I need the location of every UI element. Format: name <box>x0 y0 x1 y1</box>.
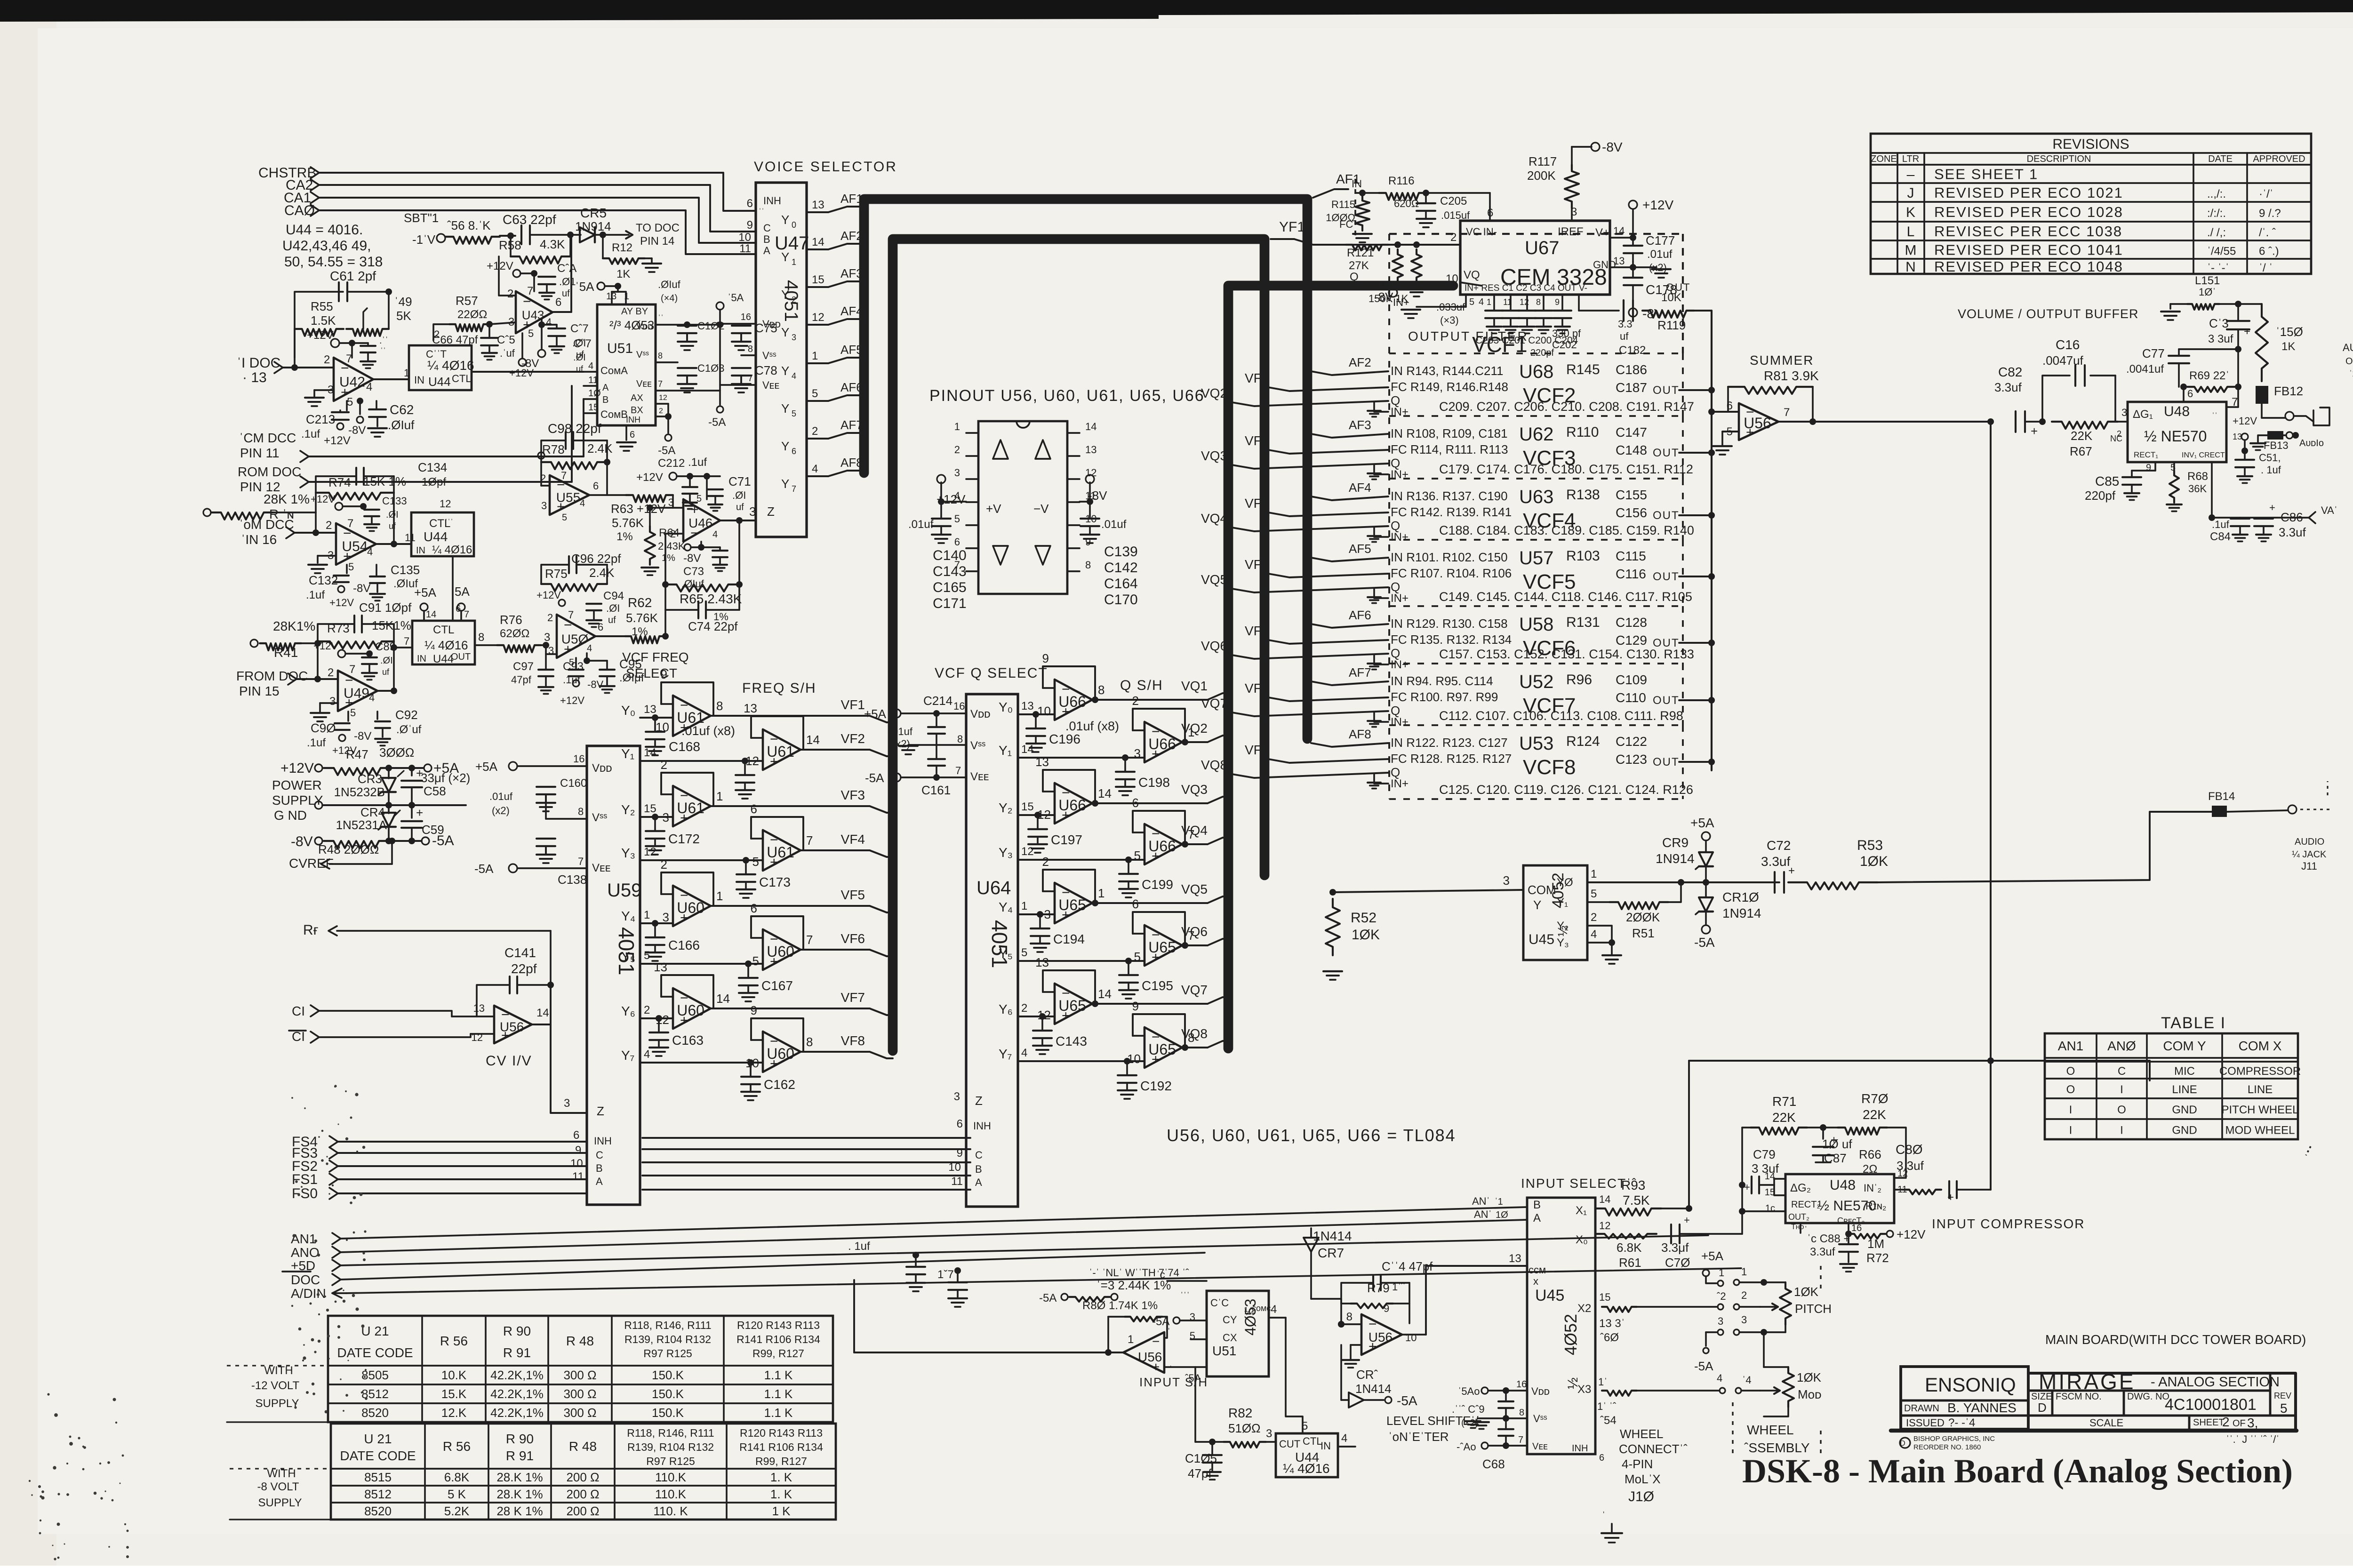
svg-text:AF2: AF2 <box>840 229 863 243</box>
svg-text:GND: GND <box>2172 1124 2197 1137</box>
svg-text:C205: C205 <box>1440 195 1467 208</box>
svg-text:I: I <box>2069 1124 2073 1137</box>
svg-text:R139, R104 R132: R139, R104 R132 <box>627 1441 714 1453</box>
svg-text:1ˈ ˈˆ: 1ˈ ˈˆ <box>1597 1400 1617 1412</box>
svg-text:AᴜᴅIᴏ: AᴜᴅIᴏ <box>2299 438 2324 448</box>
switch U51 section CY CX 4053 <box>1152 1269 1303 1433</box>
svg-text:13: 13 <box>812 199 824 211</box>
svg-text:+12V: +12V <box>324 434 351 447</box>
svg-text:R81 3.9K: R81 3.9K <box>1764 368 1819 383</box>
svg-text:U66: U66 <box>1058 797 1086 814</box>
svg-text:8512: 8512 <box>364 1487 392 1501</box>
svg-text:VF3: VF3 <box>1245 433 1269 448</box>
svg-text:IN+: IN+ <box>1391 658 1409 671</box>
svg-text:C199: C199 <box>1142 877 1173 892</box>
svg-text:R97 R125: R97 R125 <box>643 1347 692 1360</box>
svg-text:U65: U65 <box>1148 939 1176 956</box>
filter block U52 VCF7 <box>1201 664 1715 728</box>
svg-text:CᴏᴍB: CᴏᴍB <box>600 408 628 420</box>
U42 power pins C213 C62 <box>301 329 415 447</box>
svg-text:ˈ1: ˈ1 <box>1495 1197 1503 1207</box>
svg-text:R141 R106 R134: R141 R106 R134 <box>739 1441 823 1453</box>
svg-text:.01uf: .01uf <box>1101 518 1127 531</box>
svg-text:AY BY: AY BY <box>621 306 648 317</box>
svg-text:INH: INH <box>626 415 640 424</box>
svg-text:16: 16 <box>1851 1223 1862 1233</box>
svg-text:-8V: -8V <box>683 552 701 565</box>
svg-text:Vˢˢ: Vˢˢ <box>762 350 776 361</box>
svg-text:CI: CI <box>292 1004 305 1018</box>
svg-text:200 Ω: 200 Ω <box>566 1470 599 1484</box>
svg-text:U49: U49 <box>344 686 369 701</box>
svg-text:SUPPLY: SUPPLY <box>256 1397 299 1410</box>
svg-text:ˈI DOC: ˈI DOC <box>237 355 280 371</box>
svg-text:U61: U61 <box>677 800 704 816</box>
svg-text:IN+: IN+ <box>1391 716 1409 728</box>
U67 IN+ pin5 ground <box>1393 295 1484 318</box>
svg-text:9: 9 <box>747 219 753 232</box>
svg-text:8: 8 <box>1085 559 1091 571</box>
svg-text:U57: U57 <box>1519 548 1553 568</box>
svg-text:U53: U53 <box>1519 733 1553 754</box>
svg-text:10: 10 <box>1446 272 1458 285</box>
svg-text:12.K: 12.K <box>441 1406 467 1420</box>
svg-text:R48 2ØØΩ: R48 2ØØΩ <box>318 842 379 856</box>
svg-text:150.K: 150.K <box>652 1368 684 1382</box>
svg-text:VF2: VF2 <box>1245 371 1269 385</box>
svg-text:9: 9 <box>1555 297 1560 307</box>
ROM DOC pin 11 and pin 12 input lines <box>238 386 584 494</box>
svg-text:VQ5: VQ5 <box>1181 882 1208 896</box>
svg-text:14: 14 <box>1613 225 1625 237</box>
svg-text:13: 13 <box>654 960 667 974</box>
svg-text:CTL: CTL <box>1303 1435 1322 1447</box>
svg-text:.01uf: .01uf <box>908 518 934 531</box>
svg-text:VQ6: VQ6 <box>1201 639 1227 653</box>
svg-text:5: 5 <box>752 954 759 968</box>
svg-text:12: 12 <box>1021 845 1034 858</box>
svg-text:C71: C71 <box>728 474 751 488</box>
svg-text:U60: U60 <box>767 1045 794 1062</box>
svg-text:C96 22pf: C96 22pf <box>571 552 621 566</box>
svg-text:VF5: VF5 <box>841 888 865 902</box>
svg-text:+12V: +12V <box>313 640 338 652</box>
svg-text:16: 16 <box>1516 1379 1527 1390</box>
svg-text:3: 3 <box>2121 407 2127 418</box>
svg-text:uf: uf <box>1620 330 1629 342</box>
svg-text:C78: C78 <box>755 363 777 377</box>
svg-text:FC R128. R125. R127: FC R128. R125. R127 <box>1391 752 1512 766</box>
svg-text:.033uf: .033uf <box>1436 301 1465 313</box>
svg-text:14: 14 <box>644 746 656 759</box>
svg-text:AX: AX <box>631 393 643 403</box>
svg-text:200K: 200K <box>1527 168 1556 183</box>
svg-text:R75: R75 <box>545 567 568 581</box>
svg-text:15: 15 <box>644 802 656 815</box>
svg-text:2: 2 <box>547 612 553 624</box>
U67 V+ pin14 to +12V with C177 <box>1610 198 1675 273</box>
svg-text:U62: U62 <box>1519 424 1553 445</box>
svg-text:FB14: FB14 <box>2208 790 2235 803</box>
svg-text:6: 6 <box>747 197 753 210</box>
svg-text:C141: C141 <box>504 945 536 960</box>
svg-text:¼ 4Ø16: ¼ 4Ø16 <box>432 544 472 556</box>
svg-text:6 ˆ.): 6 ˆ.) <box>2259 245 2279 258</box>
svg-text:AF3: AF3 <box>840 266 863 280</box>
svg-text:6: 6 <box>593 480 599 492</box>
input lines CHSTRB CA2 CA1 CA0 <box>258 165 756 255</box>
svg-text:R131: R131 <box>1566 615 1600 630</box>
svg-text:ᴄᴏᴍᴄ: ᴄᴏᴍᴄ <box>1252 1304 1271 1313</box>
svg-text:Y: Y <box>781 477 789 491</box>
svg-text:2: 2 <box>1021 1002 1027 1015</box>
svg-text:0: 0 <box>792 220 796 230</box>
input sample hold op-amp U56 <box>854 1280 1208 1389</box>
svg-text:8: 8 <box>806 1035 813 1049</box>
AN1 AN0 entry to input selector <box>1472 1195 1508 1220</box>
svg-text:1N414: 1N414 <box>1355 1382 1392 1396</box>
VCF Q SELECT label <box>935 665 1048 681</box>
op-amp U50 stage R75 C96 C94 <box>511 552 644 706</box>
multiplexer U64 4051 <box>948 694 1018 1207</box>
svg-text:Z: Z <box>597 1104 604 1118</box>
U59 power pins +5A -5A C160 C138 <box>474 753 587 887</box>
svg-text:Vᴇᴇ: Vᴇᴇ <box>1532 1441 1548 1452</box>
svg-text:C148: C148 <box>1616 443 1647 457</box>
svg-text:Y₇: Y₇ <box>999 1047 1012 1061</box>
svg-text:ˆ54: ˆ54 <box>1600 1414 1617 1427</box>
svg-text:1: 1 <box>1128 1333 1134 1346</box>
svg-text:. 1uf: . 1uf <box>848 1240 870 1253</box>
svg-text:5: 5 <box>562 512 567 523</box>
level shifter op-amp U56 <box>1311 1252 1527 1368</box>
svg-text:2: 2 <box>1042 855 1049 869</box>
svg-text:2.4K: 2.4K <box>589 566 615 580</box>
svg-text:MᴏLˈX: MᴏLˈX <box>1625 1472 1661 1486</box>
svg-text:CR1Ø: CR1Ø <box>1722 890 1759 904</box>
svg-text:J: J <box>1907 185 1914 201</box>
svg-text:U65: U65 <box>1058 896 1086 913</box>
svg-text:O: O <box>2117 1104 2126 1116</box>
multiplexer U45 half 4052 (Y section) <box>1523 865 1597 960</box>
svg-text:VOLUME / OUTPUT BUFFER: VOLUME / OUTPUT BUFFER <box>1958 307 2139 321</box>
coupling cap C82 and C16 bypass loop with R67 <box>1994 337 2128 458</box>
svg-text:1: 1 <box>644 909 650 921</box>
svg-text:AF7: AF7 <box>840 418 863 432</box>
svg-text:X₁: X₁ <box>1576 1204 1587 1217</box>
svg-text:C110: C110 <box>1616 690 1646 705</box>
svg-text:3: 3 <box>1266 1427 1272 1440</box>
svg-text:LINE: LINE <box>2172 1083 2197 1096</box>
svg-text:7: 7 <box>464 609 469 620</box>
svg-text:U 21: U 21 <box>364 1432 392 1446</box>
svg-text:U56: U56 <box>1369 1330 1393 1344</box>
svg-text:-5A: -5A <box>1152 1315 1169 1328</box>
svg-text:5: 5 <box>1021 946 1027 959</box>
svg-text:CR3: CR3 <box>358 772 382 786</box>
svg-text:5: 5 <box>812 387 818 400</box>
svg-text:VQ8: VQ8 <box>1201 758 1227 772</box>
svg-text:22pf: 22pf <box>511 961 537 976</box>
svg-text:U56, U60, U61, U65, U66 = TL08: U56, U60, U61, U65, U66 = TL084 <box>1167 1126 1456 1145</box>
VCF column bottom dashed edge <box>1389 234 1683 799</box>
svg-text:-5A: -5A <box>1397 1393 1417 1408</box>
svg-text:1ØK: 1ØK <box>1797 1370 1822 1384</box>
svg-text:ˈ: ˈ <box>1804 1225 1808 1235</box>
component value table (-12 volt supply) <box>227 1316 833 1422</box>
svg-text:13 3ˈ: 13 3ˈ <box>1599 1317 1625 1330</box>
svg-text:C133: C133 <box>382 495 407 507</box>
svg-text:1Øˈ: 1Øˈ <box>2199 286 2216 298</box>
svg-text:VQ4: VQ4 <box>1181 823 1208 838</box>
svg-text:1. K: 1. K <box>770 1470 792 1484</box>
svg-text:./ /,:: ./ /,: <box>2207 226 2226 239</box>
svg-text:1: 1 <box>1719 1267 1724 1279</box>
svg-text:ˈˈ.ˈ J ˈˈ ˈˆ ˈ/ˈ: ˈˈ.ˈ J ˈˈ ˈˆ ˈ/ˈ <box>2226 1433 2280 1445</box>
svg-text:TABLE I: TABLE I <box>2161 1014 2226 1032</box>
svg-text:+12V: +12V <box>636 471 663 484</box>
svg-text:C177: C177 <box>1646 233 1675 248</box>
svg-text:R67: R67 <box>2070 444 2092 458</box>
svg-text:−: − <box>1152 1334 1160 1349</box>
svg-text:2Ω: 2Ω <box>1863 1163 1877 1176</box>
filter IC U67 CEM3328 <box>1460 221 1616 295</box>
svg-text:5: 5 <box>644 949 650 962</box>
svg-text:-8V: -8V <box>521 357 539 370</box>
svg-text:CUT: CUT <box>1279 1438 1300 1450</box>
svg-text:12: 12 <box>1520 297 1529 307</box>
svg-text:C157. C153. C152. C131. C154.: C157. C153. C152. C131. C154. C130. R133 <box>1439 647 1694 661</box>
svg-text:IN R143, R144.C211: IN R143, R144.C211 <box>1391 364 1503 378</box>
svg-text:R7Ø: R7Ø <box>1861 1091 1889 1106</box>
LEVEL SHIFTER CONVERTER label <box>1386 1414 1479 1444</box>
svg-text:VQ4: VQ4 <box>1201 511 1227 526</box>
svg-text:Y₂: Y₂ <box>621 802 635 817</box>
svg-text:1: 1 <box>792 257 796 267</box>
svg-text:Y: Y <box>781 364 789 378</box>
svg-text:Y₁: Y₁ <box>999 743 1012 758</box>
svg-text:2: 2 <box>328 666 334 679</box>
input compander U48 half NE570 <box>1765 1168 1908 1231</box>
svg-text:150.K: 150.K <box>652 1406 684 1420</box>
svg-text:-5A: -5A <box>1039 1292 1056 1304</box>
Q S/H op-amp array U66/U65 <box>1120 678 1163 693</box>
svg-text:5: 5 <box>752 855 759 869</box>
INPUT SELECTOR label <box>1521 1176 1637 1191</box>
resistor R82 510 and C105 47pf <box>1185 1367 1276 1480</box>
svg-text:3: 3 <box>544 631 550 644</box>
svg-text:FC R114, R111. R113: FC R114, R111. R113 <box>1391 442 1508 456</box>
svg-text:.ØIμf: .ØIμf <box>619 672 644 684</box>
svg-text:Y: Y <box>781 213 789 227</box>
svg-text:INPUT COMPRESSOR: INPUT COMPRESSOR <box>1932 1216 2085 1231</box>
svg-text:U58: U58 <box>1519 614 1553 635</box>
svg-text:6: 6 <box>1132 796 1139 810</box>
svg-text:ΔG₂: ΔG₂ <box>1790 1182 1811 1194</box>
svg-text:+: + <box>1684 1214 1690 1226</box>
svg-text:.ØIuf: .ØIuf <box>658 279 681 290</box>
ground symbol lower left of title <box>1601 1510 1622 1543</box>
svg-text:R47: R47 <box>346 747 368 761</box>
svg-text:1ØK: 1ØK <box>1352 927 1380 943</box>
wheel connector labels <box>1619 1266 1821 1504</box>
svg-text:10: 10 <box>948 1161 961 1174</box>
svg-text:FC R142. R139. R141: FC R142. R139. R141 <box>1391 505 1512 519</box>
svg-text:O: O <box>2066 1083 2075 1096</box>
svg-text:C186: C186 <box>1616 362 1647 377</box>
svg-text:4Ø52: 4Ø52 <box>1561 1314 1580 1355</box>
svg-text:3.3uf: 3.3uf <box>1810 1246 1835 1258</box>
svg-text:Y₄: Y₄ <box>999 900 1013 914</box>
svg-text:1ˈ: 1ˈ <box>1598 1376 1608 1388</box>
svg-text:VQ3: VQ3 <box>1181 782 1208 797</box>
svg-text:U52: U52 <box>1519 672 1553 692</box>
svg-text:PIN 14: PIN 14 <box>640 235 674 248</box>
svg-text:ˆ5A: ˆ5A <box>1185 1372 1201 1384</box>
op-amp U65 (VQ6 Q sample/hold) <box>1132 897 1228 966</box>
svg-text:VF6: VF6 <box>1245 624 1269 638</box>
svg-text:C197: C197 <box>1051 832 1082 847</box>
svg-text:C163: C163 <box>672 1033 704 1048</box>
svg-text:14: 14 <box>1085 421 1096 432</box>
svg-text:/ˈ. ˆ: /ˈ. ˆ <box>2259 226 2276 239</box>
svg-text:R69 22ˈ: R69 22ˈ <box>2189 369 2229 382</box>
svg-text:6: 6 <box>573 1129 579 1142</box>
svg-text:U61: U61 <box>767 743 794 760</box>
svg-text:47pf: 47pf <box>511 674 532 686</box>
svg-text:IN R108, R109, C181: IN R108, R109, C181 <box>1391 426 1508 440</box>
svg-text:.ˈˈˆ Cˆ9: .ˈˈˆ Cˆ9 <box>1452 1403 1485 1415</box>
svg-text:C98 22pf: C98 22pf <box>548 421 601 436</box>
svg-text:CTL: CTL <box>452 373 472 384</box>
svg-text:U66: U66 <box>1058 693 1086 710</box>
svg-text:.01uf: .01uf <box>489 791 513 802</box>
svg-text:Y₀: Y₀ <box>999 700 1013 714</box>
svg-text:U51: U51 <box>1212 1344 1236 1358</box>
svg-text:DATE CODE: DATE CODE <box>337 1345 413 1360</box>
svg-text:1. K: 1. K <box>770 1487 792 1501</box>
svg-text:Y₃: Y₃ <box>621 846 635 860</box>
svg-text:7: 7 <box>578 856 584 867</box>
C88 R72 +12V network <box>1801 1223 1926 1272</box>
op-amp U61 (VF1 freq sample/hold) <box>656 667 893 736</box>
ferrite bead FB12 to audio output <box>2256 384 2329 425</box>
svg-text:200 Ω: 200 Ω <box>566 1487 599 1501</box>
svg-text:C155: C155 <box>1616 488 1647 502</box>
svg-text:VF7: VF7 <box>1245 681 1269 696</box>
svg-text:5K: 5K <box>396 309 411 323</box>
svg-text:ˈᴏNˈEˈTER: ˈᴏNˈEˈTER <box>1388 1430 1449 1444</box>
svg-text:8: 8 <box>748 344 753 354</box>
svg-text:+: + <box>2244 325 2250 338</box>
svg-text:OUT: OUT <box>1653 694 1680 707</box>
svg-text:Vˢˢ: Vˢˢ <box>1533 1413 1547 1424</box>
svg-text:C72: C72 <box>1767 838 1791 853</box>
svg-text:.1uf: .1uf <box>2212 519 2230 530</box>
svg-text:FC R100. R97. R99: FC R100. R97. R99 <box>1391 690 1498 704</box>
svg-text:1.5K: 1.5K <box>311 313 336 328</box>
svg-text:U44: U44 <box>428 375 451 389</box>
svg-text:14: 14 <box>1599 1193 1610 1205</box>
svg-text:U 21: U 21 <box>361 1324 389 1338</box>
svg-text:R53: R53 <box>1857 838 1883 853</box>
svg-text:1: 1 <box>1021 900 1027 912</box>
svg-text:+12V: +12V <box>1897 1227 1926 1241</box>
svg-text:J11: J11 <box>2301 860 2317 872</box>
svg-text:14: 14 <box>536 1007 549 1019</box>
svg-text:2ØØK: 2ØØK <box>1626 910 1660 924</box>
svg-text:11: 11 <box>572 1170 584 1183</box>
svg-text:+5A: +5A <box>414 585 437 600</box>
svg-text:YF1: YF1 <box>1279 219 1305 235</box>
+5A 5A terminals for U44 <box>414 584 470 621</box>
svg-text:7: 7 <box>806 833 813 848</box>
svg-text:.ˈˈ: .ˈˈ <box>379 336 388 346</box>
svg-text:YØ: YØ <box>1557 876 1573 889</box>
svg-text:1: 1 <box>404 367 409 379</box>
svg-text:SUMMER: SUMMER <box>1750 353 1814 368</box>
svg-text:1Ø uf: 1Ø uf <box>1822 1137 1852 1151</box>
svg-text:U61: U61 <box>767 844 794 861</box>
svg-text:VF8: VF8 <box>841 1033 865 1048</box>
svg-text:(x2): (x2) <box>492 805 510 816</box>
svg-text:42.2K,1%: 42.2K,1% <box>490 1368 544 1382</box>
C83 3.3uf and L151 10K and R150 1K output network <box>2161 274 2303 381</box>
svg-text:Vˢˢ: Vˢˢ <box>636 350 649 360</box>
svg-text:ˆSSEMBLY: ˆSSEMBLY <box>1744 1440 1810 1455</box>
svg-text:IN+: IN+ <box>1393 296 1409 308</box>
svg-text:VQ7: VQ7 <box>1181 983 1208 997</box>
svg-text:3.3uf: 3.3uf <box>1897 1159 1924 1173</box>
svg-text:U54: U54 <box>342 539 368 554</box>
svg-text:C187: C187 <box>1616 380 1647 395</box>
svg-text:C94: C94 <box>603 590 624 602</box>
svg-text:ˈ4: ˈ4 <box>1742 1374 1752 1386</box>
svg-text:1.1 K: 1.1 K <box>764 1387 793 1401</box>
svg-text:ˈc C88 +: ˈc C88 + <box>1807 1232 1850 1245</box>
svg-text:3 3uf: 3 3uf <box>2208 333 2233 345</box>
svg-text:C167: C167 <box>761 978 793 993</box>
svg-text:IN R136. R137. C190: IN R136. R137. C190 <box>1391 489 1508 503</box>
svg-text:4.3K: 4.3K <box>540 237 565 251</box>
svg-text:FB12: FB12 <box>2274 384 2303 398</box>
svg-text:¼ JACK: ¼ JACK <box>2292 849 2327 860</box>
svg-text:2: 2 <box>1741 1289 1747 1301</box>
svg-text:R103: R103 <box>1566 548 1600 564</box>
svg-text:FC R135. R132. R134: FC R135. R132. R134 <box>1391 632 1512 647</box>
svg-text:C140: C140 <box>933 548 967 563</box>
svg-text:ˈˈc: ˈˈc <box>1153 1269 1165 1280</box>
svg-text:R63 +12V: R63 +12V <box>611 502 666 516</box>
svg-text:Y₁: Y₁ <box>621 746 634 761</box>
C77 cap and R69 22K feedback <box>2126 346 2241 407</box>
volume output buffer label <box>1958 307 2139 321</box>
svg-text:C66 47pf: C66 47pf <box>432 334 478 346</box>
pinout diagram U56 U60 U61 U65 U66 <box>908 387 1205 611</box>
svg-text:OUT: OUT <box>2345 356 2353 367</box>
svg-text:C132: C132 <box>309 573 338 587</box>
svg-text:110.K: 110.K <box>655 1487 687 1501</box>
svg-text:C97: C97 <box>513 660 534 673</box>
svg-text:Y₄: Y₄ <box>621 909 635 923</box>
svg-text:12: 12 <box>812 311 824 324</box>
svg-text:14: 14 <box>1021 743 1034 756</box>
title block ENSONIQ MIRAGE <box>1891 1332 2306 1451</box>
svg-text:3: 3 <box>564 1097 570 1110</box>
svg-text:110.K: 110.K <box>655 1470 687 1484</box>
svg-text:28.K 1%: 28.K 1% <box>496 1470 543 1484</box>
svg-text:+12V: +12V <box>307 329 334 342</box>
